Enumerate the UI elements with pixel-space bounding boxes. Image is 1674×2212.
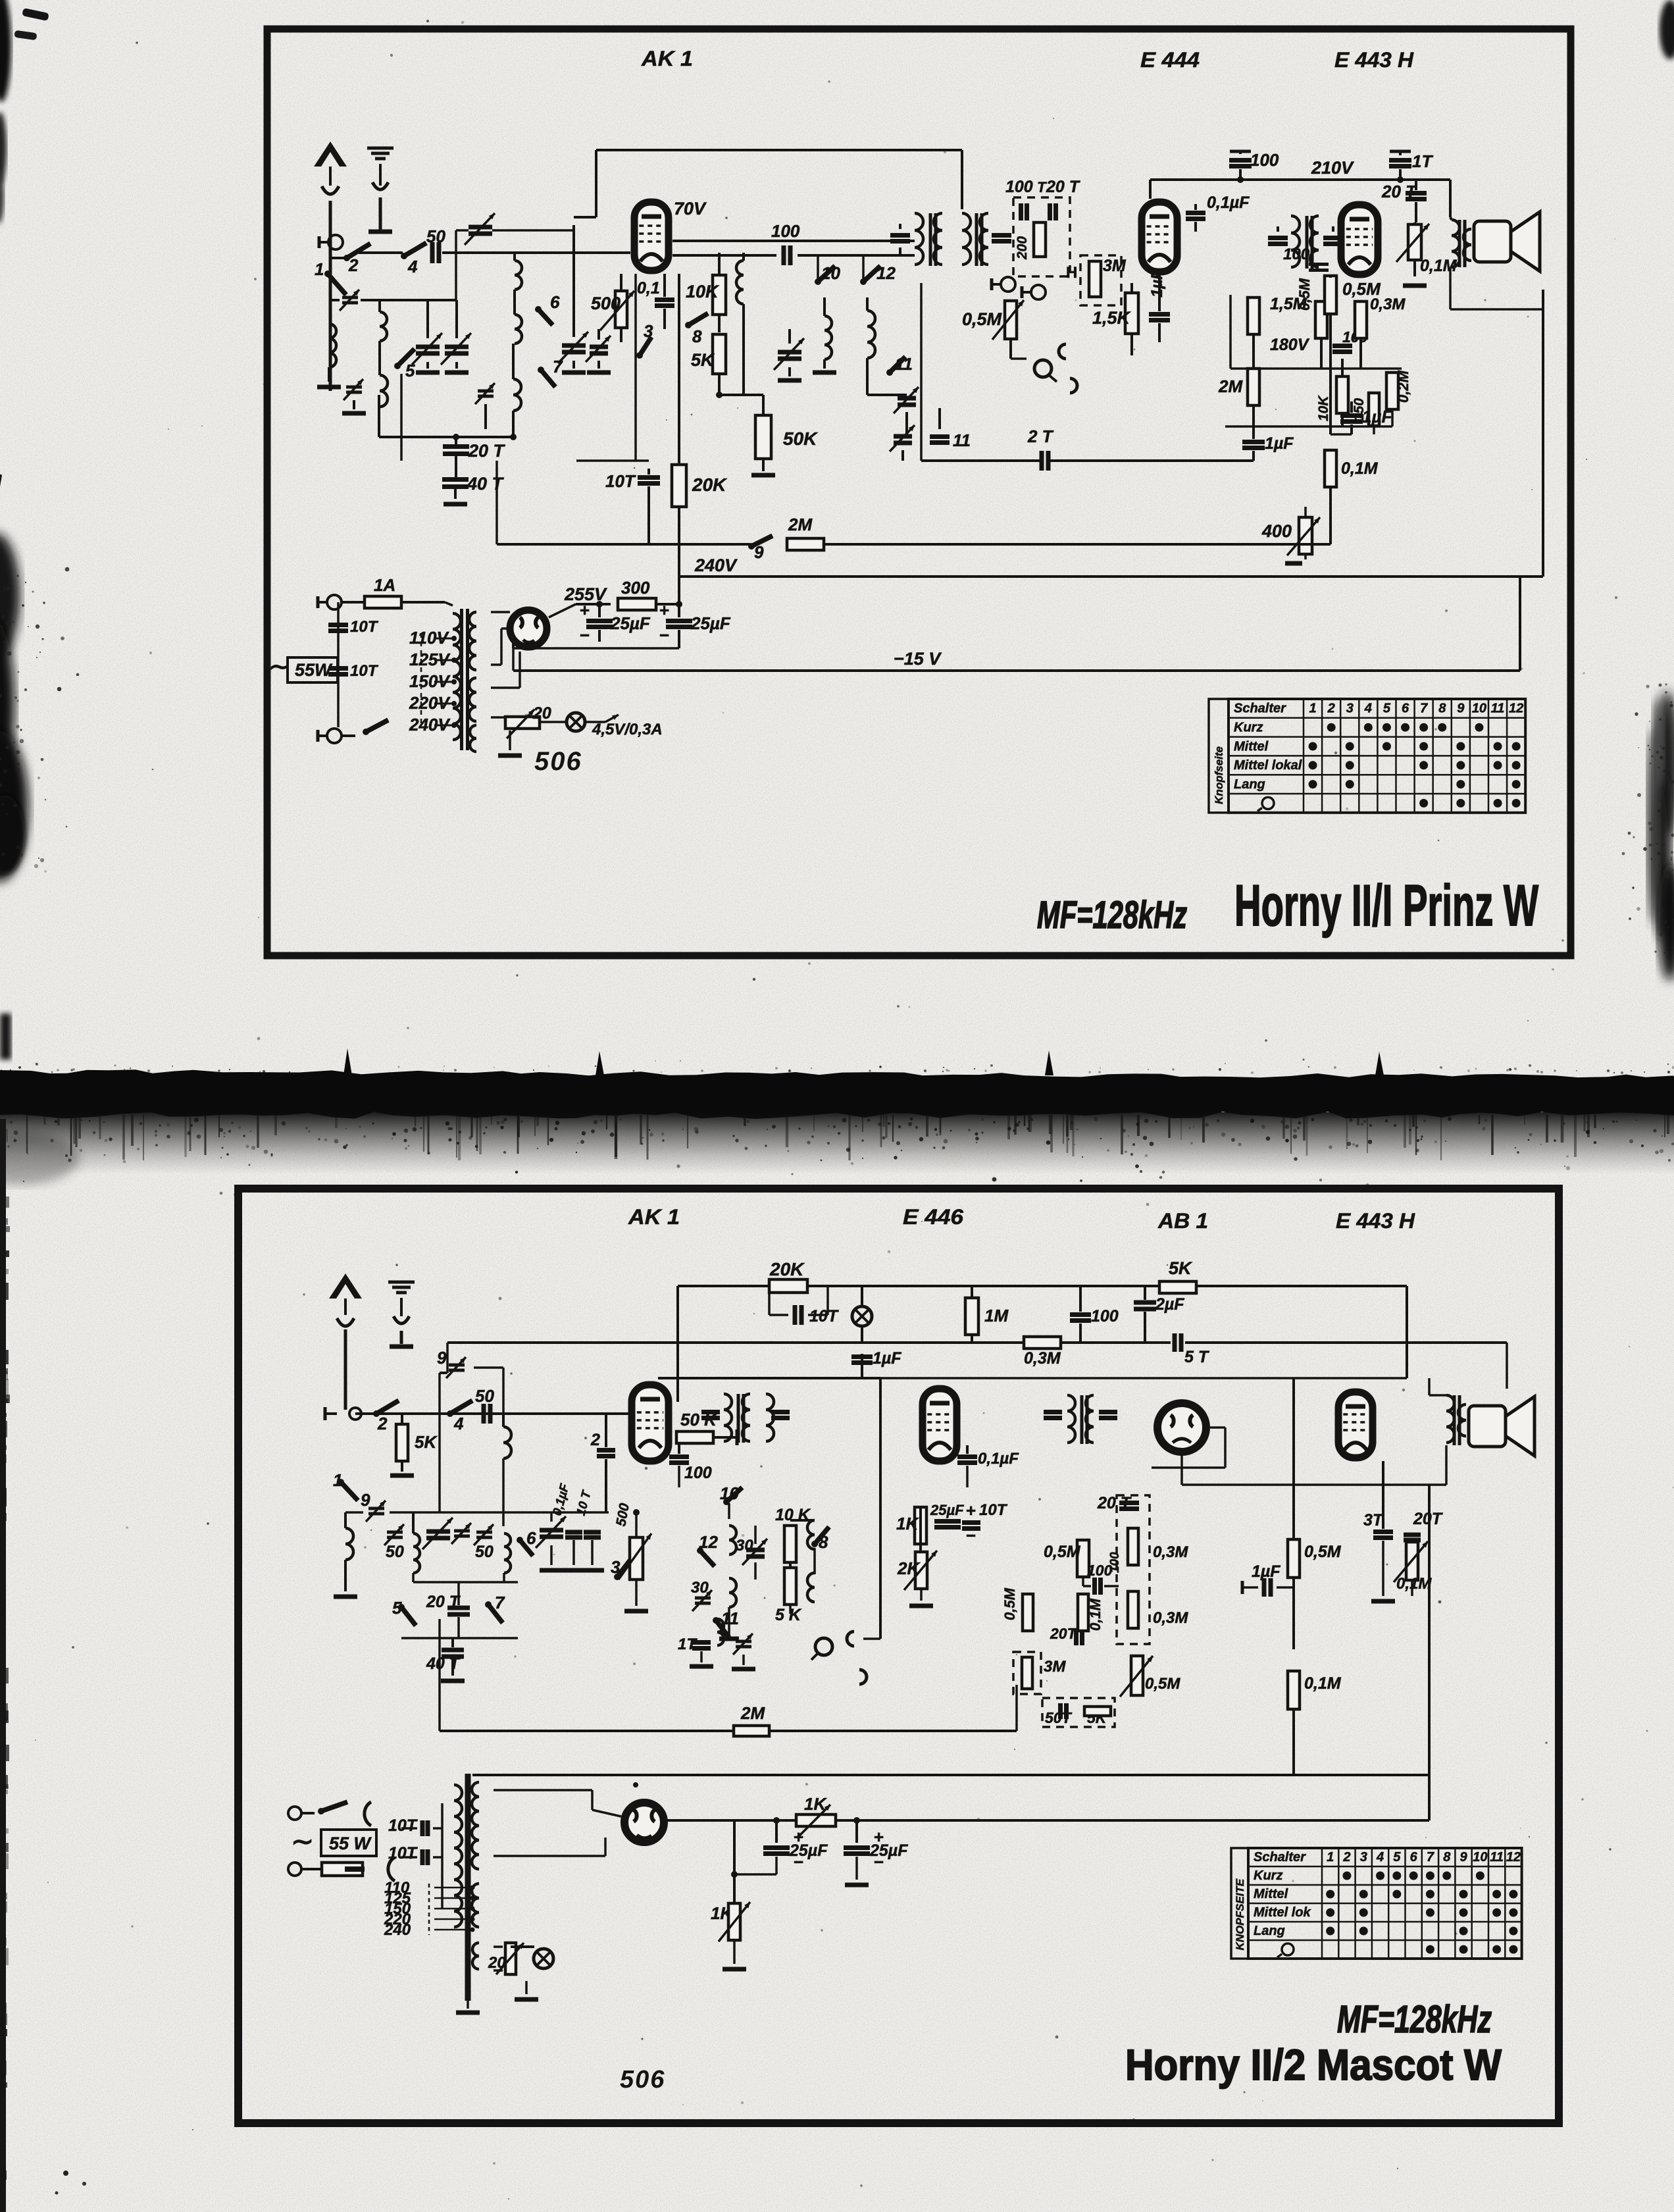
resistor 0,5M output grid (1325, 276, 1336, 314)
svg-text:2: 2 (348, 255, 359, 275)
long right wires panel2 (1506, 1343, 1508, 1389)
svg-text:8: 8 (1443, 1850, 1451, 1865)
line with cap 100 (672, 254, 776, 257)
svg-text:9: 9 (437, 1348, 447, 1368)
rail 2 panel2 (447, 1341, 1171, 1344)
svg-text:Mittel: Mittel (1254, 1887, 1288, 1901)
svg-text:2: 2 (1327, 702, 1335, 716)
svg-text:1: 1 (1327, 1850, 1334, 1865)
coil pair osc (807, 1520, 815, 1549)
svg-text:+: + (659, 600, 669, 620)
resistor 0,3M (1355, 301, 1367, 338)
svg-text:30: 30 (691, 1579, 709, 1597)
svg-text:5K: 5K (415, 1432, 438, 1452)
svg-text:506: 506 (534, 747, 582, 776)
svg-text:11: 11 (1490, 1850, 1504, 1865)
svg-text:2 T: 2 T (1027, 426, 1054, 446)
scattered specks (44, 870, 46, 872)
pentode E446 (923, 1389, 957, 1461)
svg-text:10T: 10T (350, 662, 379, 680)
svg-text:+: + (966, 1501, 976, 1520)
svg-text:200: 200 (1015, 236, 1030, 260)
resistor 0,3M (panel2) (1024, 1337, 1061, 1349)
svg-text:Schalter: Schalter (1234, 702, 1286, 716)
loudspeaker (1474, 221, 1511, 262)
resistor 10K (713, 275, 726, 315)
pickup jacks (1001, 277, 1015, 292)
svg-text:E 444: E 444 (1140, 48, 1200, 72)
antenna input jack (328, 235, 343, 249)
switch 11 (886, 369, 893, 376)
svg-text:11: 11 (1491, 702, 1505, 716)
cap 10T (panel2 right) (962, 1520, 980, 1525)
svg-text:0,1M: 0,1M (1396, 1575, 1432, 1593)
svg-text:11: 11 (953, 430, 971, 450)
antenna (314, 141, 347, 167)
HT branch down from rail (1519, 577, 1521, 671)
svg-text:10T: 10T (388, 1816, 419, 1835)
switch 7 (panel2) (485, 1601, 492, 1608)
tone pot 0,1M (1408, 224, 1421, 260)
svg-text:50: 50 (475, 1543, 494, 1561)
svg-text:506: 506 (620, 2066, 665, 2094)
svg-text:10T: 10T (809, 1307, 840, 1325)
detector network wires (1230, 367, 1402, 370)
svg-text:4: 4 (1376, 1850, 1384, 1865)
svg-text:Lang: Lang (1234, 777, 1265, 792)
switch 8 (685, 322, 692, 328)
bottom power rails (472, 1774, 1429, 1776)
svg-text:Mittel: Mittel (1234, 739, 1269, 754)
svg-text:0,1: 0,1 (637, 279, 660, 297)
svg-text:0,3M: 0,3M (1153, 1609, 1188, 1627)
dial lamp circuit (491, 716, 505, 719)
padding caps row 2 (540, 1528, 563, 1533)
resistor 5K (713, 334, 726, 374)
resistor 3M dashed (panel2) (1013, 1652, 1041, 1694)
svg-text:8: 8 (819, 1532, 828, 1552)
svg-text:4: 4 (407, 257, 418, 276)
pentode tube E444 (1142, 202, 1177, 272)
svg-text:1µF: 1µF (1252, 1562, 1281, 1581)
IF transformer 1 (890, 233, 910, 238)
svg-text:100: 100 (1250, 150, 1279, 170)
AF line from tube (672, 240, 915, 242)
resistor 0,5M (panel2 right) (1288, 1539, 1300, 1578)
rail3 panel2 (658, 1377, 1407, 1379)
cap 40T (panel2) (401, 1637, 518, 1639)
switch 5 (panel2) (398, 1604, 405, 1610)
antenna coil L1 (329, 324, 336, 367)
power transformer LV winding (panel2) (472, 1884, 479, 1927)
speaker return wire (1449, 267, 1452, 309)
switch 3 (636, 352, 643, 359)
phono jack symbol (1034, 360, 1052, 377)
power transformer core (panel2) (465, 1774, 471, 2001)
switch 11 (panel2) (713, 1617, 719, 1624)
svg-text:−15 V: −15 V (894, 649, 942, 669)
svg-text:E 443 H: E 443 H (1336, 1209, 1415, 1233)
loudspeaker (panel2) (1469, 1406, 1506, 1447)
pentode tube AK1 (top panel) (634, 202, 669, 270)
svg-text:9: 9 (1457, 702, 1465, 716)
switch 1 (panel2) (338, 1479, 344, 1485)
svg-text:0,5M: 0,5M (1044, 1543, 1081, 1561)
dark shade below band left corner (0, 1132, 79, 1185)
svg-text:100: 100 (771, 221, 800, 241)
power transformer pilot winding (470, 725, 476, 752)
dial lamp circuit (panel2) (494, 1945, 503, 1948)
svg-text:+: + (580, 600, 590, 620)
svg-text:−: − (659, 625, 669, 645)
resistor 150 (1369, 393, 1379, 426)
resistor 1M (965, 1298, 978, 1335)
svg-text:Mittel lokal: Mittel lokal (1234, 758, 1302, 773)
svg-text:Horny II/I Prinz W: Horny II/I Prinz W (1234, 873, 1538, 938)
electrolytic 25uF second (678, 604, 680, 617)
panel 1 border frame (Horny II/1 Prinz W) (267, 29, 1571, 956)
resistor 0,5M avc (1077, 1540, 1089, 1577)
potentiometer 500 (615, 291, 627, 328)
IF transformer 2 (1268, 236, 1288, 240)
left film edge strip below band (0, 1119, 6, 2212)
electrolytic 25uF a (panel2) (773, 1817, 780, 1824)
cap 1uF left (1242, 440, 1265, 444)
svg-text:20: 20 (532, 704, 551, 723)
left edge mark above band (0, 1014, 11, 1060)
svg-text:30: 30 (736, 1537, 753, 1555)
osc pot 500 (panel2) (630, 1537, 643, 1580)
dark photocopy band across middle (0, 1069, 1674, 1119)
IF transformer (panel2) second (1044, 1410, 1062, 1414)
svg-text:0,5M: 0,5M (1304, 1543, 1342, 1561)
power transformer LV winding (469, 678, 476, 721)
osc trimmer bottom (736, 1640, 751, 1643)
resistor 0,5M avc2 (1023, 1594, 1033, 1631)
svg-text:4: 4 (453, 1414, 464, 1433)
resistor 5K (panel2 top) (1159, 1281, 1196, 1293)
svg-text:6: 6 (550, 292, 560, 312)
earth antenna (panel 2) (388, 1281, 415, 1284)
pot 2K (915, 1552, 927, 1589)
svg-text:E 446: E 446 (903, 1205, 963, 1229)
oscillator tracking coil (867, 311, 875, 358)
svg-text:20K: 20K (692, 475, 727, 495)
svg-text:0,2M: 0,2M (1395, 370, 1411, 403)
svg-text:Lang: Lang (1254, 1924, 1285, 1938)
svg-text:1µF: 1µF (1265, 434, 1294, 453)
svg-text:3: 3 (1360, 1850, 1367, 1865)
RF coil L2 tapped (380, 312, 387, 341)
svg-text:MF=128kHz: MF=128kHz (1037, 894, 1187, 937)
svg-text:5: 5 (1393, 1850, 1401, 1865)
top-left corner marks (22, 8, 49, 21)
dashed box 50T 5K (1042, 1698, 1115, 1727)
tuning gang capacitor C1 (416, 345, 440, 349)
power transformer HV winding (panel2) (472, 1782, 479, 1869)
resistor 0,1M (panel2 right) (1288, 1671, 1300, 1709)
decoupling cap 100 top (1239, 150, 1242, 154)
svg-text:10T: 10T (979, 1501, 1008, 1519)
svg-text:0,5M: 0,5M (1145, 1675, 1180, 1693)
svg-text:0,5M: 0,5M (1342, 279, 1381, 299)
cathode capacitors (562, 344, 586, 348)
svg-text:3T: 3T (1363, 1511, 1384, 1530)
svg-text:2M: 2M (1218, 376, 1243, 396)
duo-diode AB1 (1157, 1403, 1206, 1452)
svg-text:7: 7 (1420, 702, 1428, 716)
svg-text:210V: 210V (1311, 158, 1354, 178)
svg-text:40 T: 40 T (426, 1655, 461, 1673)
cap 10T lower (328, 666, 348, 671)
rectifier tube (panel2) (624, 1803, 664, 1842)
resistor 5K osc (784, 1568, 796, 1605)
svg-text:0,1µF: 0,1µF (978, 1450, 1019, 1468)
svg-text:Kurz: Kurz (1254, 1868, 1282, 1883)
capacitor 100 mid (1332, 344, 1352, 348)
wire AK1 cathode down (634, 274, 637, 461)
svg-text:100: 100 (1283, 245, 1310, 263)
grid rail (panel 2) (355, 1412, 630, 1415)
svg-text:1,5K: 1,5K (1092, 308, 1132, 328)
svg-text:0,3M: 0,3M (1024, 1349, 1061, 1368)
pot 0,5M avc (1131, 1656, 1143, 1695)
wire to output transformer (1400, 178, 1450, 181)
svg-text:400: 400 (1261, 521, 1292, 541)
switch 6 (535, 306, 542, 313)
svg-text:10T: 10T (350, 618, 379, 636)
svg-text:1: 1 (333, 1470, 342, 1490)
svg-text:0,1M: 0,1M (1087, 1598, 1103, 1631)
svg-text:7: 7 (495, 1593, 505, 1612)
svg-text:20 T: 20 T (426, 1593, 461, 1611)
capacitor 40T (442, 477, 469, 482)
heater wires (491, 686, 520, 689)
AB1 frame wires (1209, 1426, 1225, 1429)
svg-text:240V: 240V (694, 555, 738, 575)
svg-text:10K: 10K (1316, 395, 1331, 421)
svg-text:2: 2 (1342, 1850, 1350, 1865)
svg-text:10: 10 (821, 263, 840, 283)
switch 5 (394, 363, 401, 369)
svg-text:1µF: 1µF (873, 1349, 901, 1368)
svg-text:70V: 70V (674, 199, 707, 219)
pentode AK1 (panel 2) (632, 1385, 669, 1461)
svg-text:E 443 H: E 443 H (1334, 48, 1414, 72)
svg-text:6: 6 (1402, 702, 1409, 716)
svg-text:5 K: 5 K (775, 1606, 802, 1624)
svg-text:5K: 5K (691, 350, 715, 370)
svg-text:100: 100 (1091, 1307, 1119, 1325)
trimmer capacitor (346, 386, 362, 389)
resistor 50K (755, 415, 771, 459)
output tube E443H (panel2) (1338, 1392, 1373, 1458)
resistor 3M dashed box grid leak (1080, 255, 1121, 305)
svg-text:10T: 10T (605, 471, 636, 491)
resistor 0,1M avc (1078, 1594, 1088, 1631)
anode supply rail top (596, 149, 962, 151)
antenna coil (panel2) (345, 1528, 353, 1560)
mains terminal 1 (panel2) (288, 1807, 301, 1820)
long AVC line with switch 9 and resistor 2M (497, 543, 750, 546)
svg-text:9: 9 (754, 542, 764, 562)
svg-text:KNOPFSEITE: KNOPFSEITE (1234, 1878, 1246, 1950)
svg-text:50: 50 (426, 226, 445, 246)
trimmer 9 second (368, 1507, 384, 1510)
switch 8 (panel2) (811, 1541, 818, 1547)
svg-text:0,5M: 0,5M (1296, 278, 1313, 311)
svg-text:AB 1: AB 1 (1157, 1209, 1208, 1233)
switch position table panel 1 (1209, 699, 1229, 813)
series cap 5T (1173, 1333, 1177, 1352)
grid cap 0,1uF (1186, 211, 1205, 215)
svg-text:8: 8 (1438, 702, 1446, 716)
bottom left page marks (63, 2171, 68, 2176)
svg-text:0,1M: 0,1M (1341, 459, 1379, 478)
svg-text:20 T: 20 T (468, 441, 506, 461)
screen coil (736, 261, 744, 304)
svg-text:−: − (580, 625, 590, 645)
switch 2 (panel2) (373, 1410, 380, 1417)
svg-text:2µF: 2µF (1155, 1295, 1184, 1314)
electrolytic 25uF b (panel2) (853, 1817, 860, 1824)
padder caps 11 (898, 396, 916, 401)
switch 7 (538, 367, 544, 373)
svg-text:25µF: 25µF (789, 1841, 828, 1860)
svg-text:4: 4 (1364, 702, 1372, 716)
svg-text:0,1M: 0,1M (1304, 1674, 1342, 1693)
transformer chassis ground (panel2) (467, 2001, 469, 2009)
-15V bias rail (513, 669, 1520, 672)
svg-text:H: H (1066, 264, 1077, 282)
svg-text:0,3M: 0,3M (1153, 1543, 1188, 1561)
svg-text:Mittel lok: Mittel lok (1254, 1905, 1311, 1920)
capacitor 20T (379, 436, 513, 438)
padder capacitor (445, 345, 469, 349)
electrolytic 25uF first (596, 601, 603, 607)
svg-text:500: 500 (591, 294, 621, 313)
svg-text:7: 7 (1427, 1850, 1434, 1865)
resistor 20K (672, 465, 686, 507)
cap 100 under tube (669, 1454, 689, 1459)
panel 2 border frame (Horny II/2 Mascot W) (238, 1189, 1559, 2123)
svg-text:0,5M: 0,5M (962, 309, 1002, 329)
power transformer pilot winding (panel2) (472, 1943, 479, 1969)
power transformer primary (453, 613, 461, 740)
svg-text:1M: 1M (984, 1306, 1009, 1325)
svg-text:10: 10 (1473, 1850, 1487, 1865)
cap 10T upper (337, 602, 340, 727)
svg-text:5 T: 5 T (1184, 1348, 1210, 1366)
cap 0,1uF under E446 (957, 1454, 977, 1459)
anode rail E444-E443H (1150, 178, 1400, 181)
switch 12 (860, 278, 867, 285)
output transformer (1452, 220, 1459, 267)
mains terminal top (327, 595, 342, 609)
svg-text:100: 100 (1087, 1562, 1113, 1579)
mains terminal 2 fuse (panel2) (288, 1863, 301, 1876)
svg-text:5: 5 (392, 1598, 402, 1618)
output tube E443H (1341, 205, 1378, 274)
dial lamp top (852, 1306, 872, 1326)
resistor 1,5K (1125, 293, 1138, 334)
volume pot 0,5M (1005, 301, 1017, 339)
svg-text:2K: 2K (897, 1558, 921, 1578)
svg-text:12: 12 (876, 263, 896, 283)
svg-text:10T: 10T (388, 1844, 419, 1863)
svg-text:55W: 55W (295, 660, 333, 680)
wire antenna to band switch (359, 251, 403, 254)
oscillator transformer (panel2) (729, 1526, 736, 1555)
resistor 1K (panel2) (915, 1507, 926, 1544)
svg-text:Schalter: Schalter (1254, 1850, 1306, 1865)
svg-text:20T: 20T (1050, 1625, 1078, 1642)
series capacitor 50 (430, 242, 435, 263)
scan smudge left edge top (0, 0, 11, 102)
svg-text:3M: 3M (1103, 257, 1127, 275)
cap 1T (panel2) (692, 1640, 711, 1645)
resistor 10K osc (784, 1526, 796, 1562)
svg-text:9: 9 (361, 1490, 370, 1510)
svg-text:1µF: 1µF (1148, 269, 1166, 297)
svg-text:11: 11 (895, 354, 913, 374)
svg-text:9: 9 (1459, 1850, 1467, 1865)
svg-text:100: 100 (1005, 178, 1033, 196)
svg-text:T: T (1037, 179, 1047, 195)
svg-text:10: 10 (720, 1483, 739, 1503)
resistor 10K vertical (1336, 376, 1348, 413)
svg-text:6: 6 (526, 1528, 536, 1548)
band coil cluster (387, 1531, 403, 1534)
svg-text:AK 1: AK 1 (641, 47, 693, 70)
svg-text:3: 3 (611, 1557, 621, 1577)
svg-text:1A: 1A (374, 575, 395, 595)
svg-text:40 T: 40 T (467, 474, 505, 494)
scan smudge left edge large blob (0, 533, 20, 658)
resistor 50K anode (676, 1431, 713, 1443)
svg-text:5: 5 (1383, 702, 1391, 716)
svg-text:Kurz: Kurz (1234, 721, 1263, 735)
cap 1uF mid (851, 1354, 873, 1359)
svg-text:1: 1 (1309, 702, 1316, 716)
scan smudge right edge streak (1656, 691, 1674, 836)
svg-text:50: 50 (386, 1543, 404, 1561)
svg-text:5K: 5K (1169, 1258, 1193, 1278)
osc section connection wires (728, 1503, 730, 1519)
power transformer core (460, 609, 463, 750)
coupling coil (503, 1427, 511, 1458)
svg-text:3: 3 (644, 321, 653, 341)
svg-text:25µF: 25µF (869, 1841, 908, 1860)
svg-text:0,1µF: 0,1µF (1207, 193, 1250, 212)
svg-text:20 T: 20 T (1046, 178, 1081, 196)
ground antenna counterpoise (367, 147, 393, 150)
top rail panel2 (678, 1285, 769, 1287)
svg-text:50K: 50K (783, 428, 818, 449)
svg-text:12: 12 (699, 1532, 718, 1552)
coupling unit 100/20T dashed box (1013, 197, 1070, 276)
phones jack (panel2) (815, 1638, 832, 1655)
grid line to AK1 (442, 251, 630, 254)
svg-text:240: 240 (384, 1921, 411, 1939)
IF tuned circuit A (778, 350, 801, 355)
resistor 0,5M vertical (1315, 301, 1327, 338)
svg-text:MF=128kHz: MF=128kHz (1337, 1998, 1492, 2041)
antenna (panel 2) (329, 1273, 362, 1299)
svg-text:Knopfseite: Knopfseite (1213, 746, 1225, 804)
oscillator trimmer (478, 390, 494, 393)
switch 4 (panel2) (447, 1410, 453, 1417)
